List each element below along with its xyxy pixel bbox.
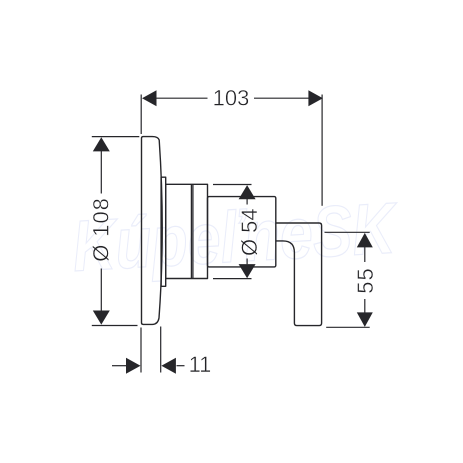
- svg-text:103: 103: [213, 86, 250, 111]
- svg-text:Ø 108: Ø 108: [88, 197, 113, 261]
- svg-text:55: 55: [353, 267, 378, 293]
- svg-text:Ø 54: Ø 54: [237, 208, 262, 256]
- svg-text:KúpeľneSK: KúpeľneSK: [70, 187, 401, 287]
- svg-text:11: 11: [189, 352, 212, 377]
